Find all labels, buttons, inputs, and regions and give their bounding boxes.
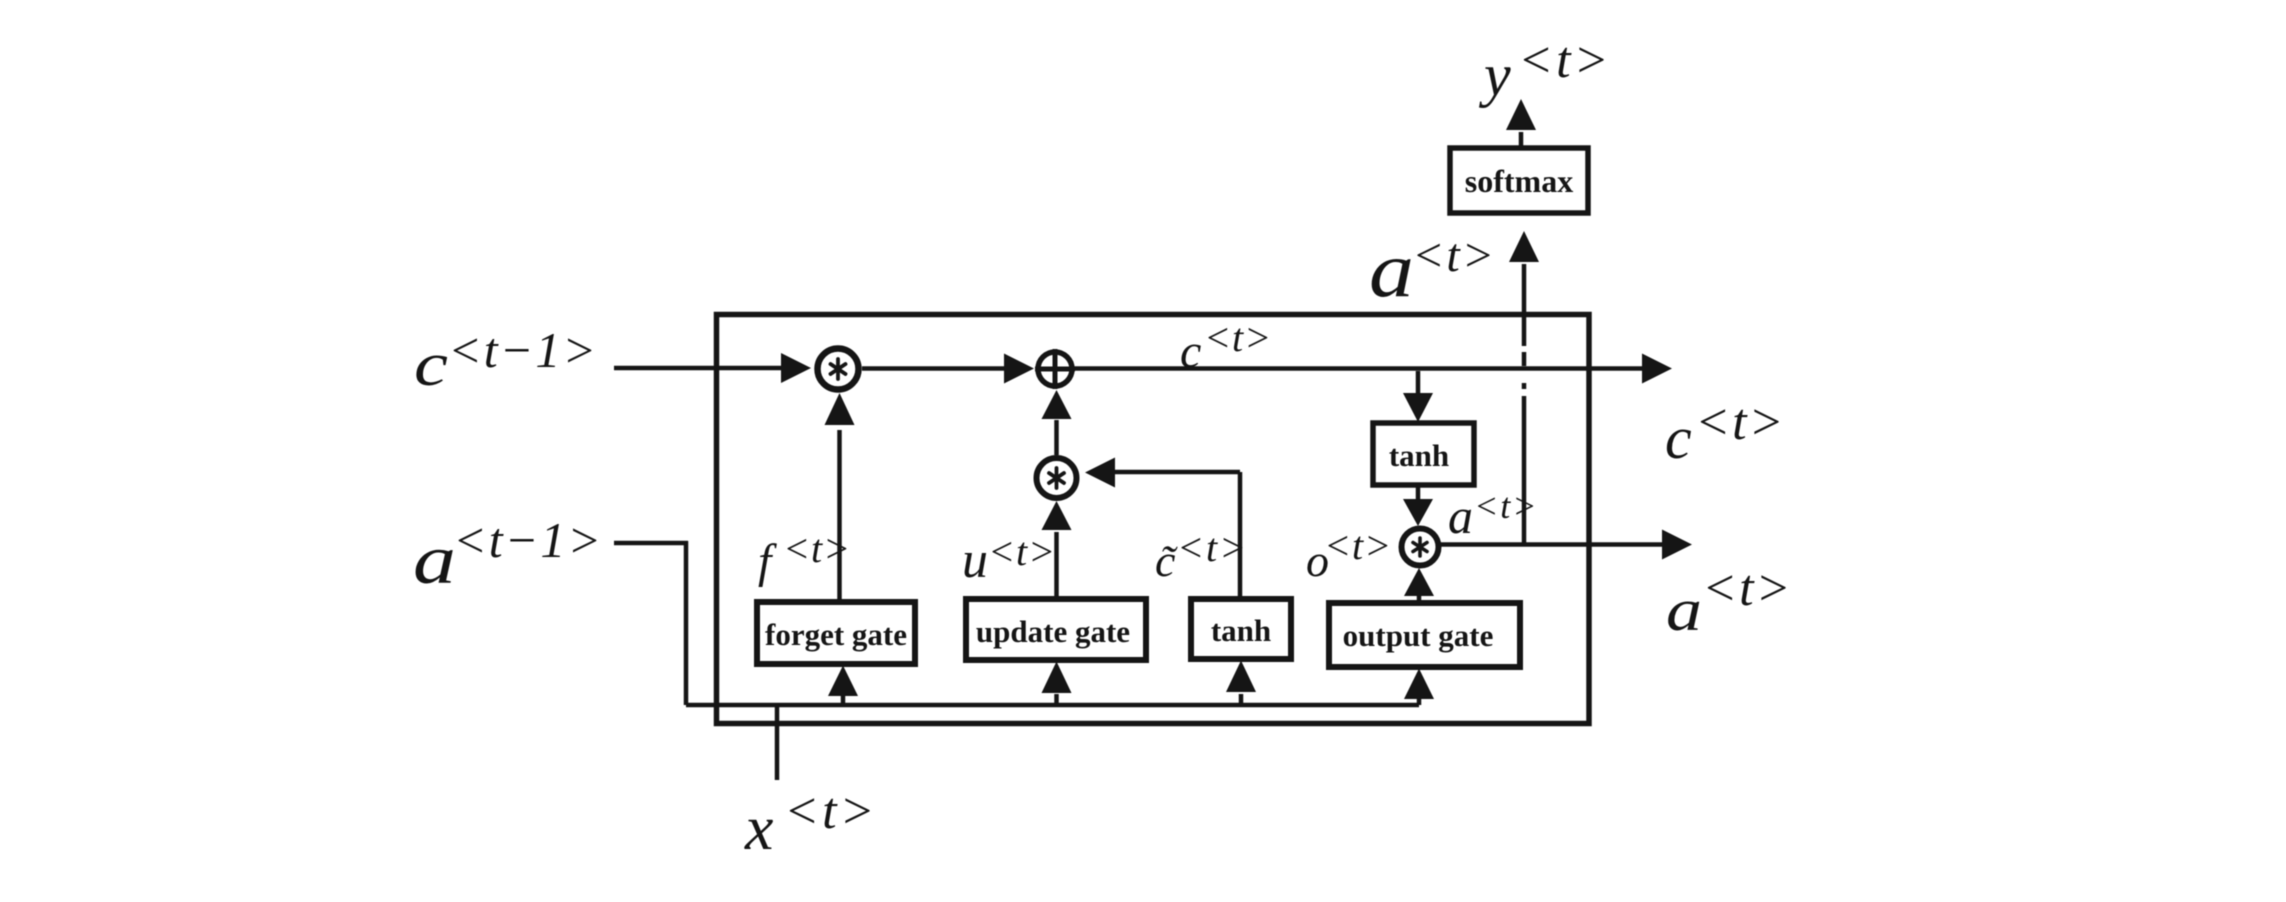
svg-text:c: c — [1665, 405, 1692, 471]
bus riser into candidate tanh — [1239, 694, 1244, 705]
forget gate box — [757, 602, 915, 664]
arrowhead into output tanh box — [1403, 393, 1433, 422]
input label c^&lt;t-1&gt; — [414, 322, 598, 399]
update multiply node circle — [1037, 458, 1077, 498]
svg-text:<t>: <t> — [1412, 229, 1496, 282]
svg-text:<t>: <t> — [1177, 525, 1248, 570]
wire output gate to output multiply node — [1417, 595, 1422, 602]
svg-text:<t>: <t> — [1518, 32, 1612, 89]
arrowhead c^&lt;t&gt; output right — [1642, 354, 1672, 384]
svg-text:<t>: <t> — [784, 783, 878, 840]
svg-text:softmax: softmax — [1465, 163, 1573, 199]
svg-text:update gate: update gate — [976, 614, 1130, 649]
svg-text:<t>: <t> — [1474, 486, 1539, 526]
bus riser into output gate — [1417, 699, 1422, 705]
label y^&lt;t&gt; — [1478, 32, 1612, 108]
svg-text:<t>: <t> — [988, 529, 1056, 574]
asterisk in output multiply node — [1413, 538, 1427, 556]
arrowhead bus into forget gate — [828, 666, 858, 697]
add node circle — [1038, 352, 1072, 386]
wire a out of output multiply node — [1441, 542, 1664, 547]
arrowhead u into update multiply node — [1042, 501, 1072, 530]
output multiply node circle — [1402, 529, 1439, 566]
svg-text:a: a — [1448, 488, 1473, 544]
svg-text:a: a — [1666, 577, 1702, 643]
arrowhead into add node from below — [1042, 390, 1072, 419]
output label a^&lt;t&gt; right — [1666, 560, 1793, 643]
arrowhead f into multiply node — [825, 393, 855, 425]
arrowhead into y^&lt;t&gt; — [1506, 99, 1536, 130]
outer LSTM cell box — [717, 315, 1590, 724]
svg-text:forget gate: forget gate — [765, 617, 907, 652]
asterisk in update multiply node — [1049, 468, 1064, 488]
label a^&lt;t&gt; top — [1369, 226, 1496, 313]
wire label c^&lt;t&gt; — [1180, 315, 1272, 378]
arrowhead a into softmax — [1509, 231, 1539, 262]
svg-text:c: c — [1180, 325, 1201, 378]
arrowhead bus into update gate — [1042, 662, 1072, 694]
vertical a wire upper solid part — [1522, 264, 1527, 346]
dash of dash-dot a wire — [1522, 352, 1527, 366]
output gate box — [1329, 603, 1520, 667]
svg-text:a: a — [413, 522, 456, 599]
arrowhead into add node — [1004, 354, 1034, 384]
wire output tanh to output multiply node — [1416, 485, 1421, 500]
arrowhead bus into candidate tanh — [1226, 661, 1256, 693]
plus cross in add node — [1035, 349, 1075, 389]
wire multiply to add node — [862, 366, 1006, 371]
svg-text:<t−1>: <t−1> — [448, 322, 598, 378]
input label a^&lt;t-1&gt; — [413, 512, 603, 599]
label x^&lt;t&gt; — [744, 783, 878, 863]
vertical a wire to softmax solid lower part — [1522, 396, 1527, 545]
label f^&lt;t&gt; — [758, 526, 851, 588]
label o^&lt;t&gt; — [1306, 523, 1392, 586]
arrowhead candidate into update multiply node — [1085, 458, 1115, 488]
output tanh box — [1373, 423, 1474, 485]
svg-text:<t>: <t> — [1702, 560, 1793, 617]
wire candidate vertical — [1238, 472, 1243, 599]
wire c down into output tanh — [1416, 371, 1421, 395]
svg-text:c̃: c̃ — [1155, 535, 1179, 586]
label u^&lt;t&gt; — [962, 529, 1056, 589]
multiply node circle (forget) — [818, 349, 859, 390]
label c-tilde^&lt;t&gt; — [1155, 525, 1248, 586]
svg-text:x: x — [744, 792, 773, 863]
arrowhead a^&lt;t&gt; output right — [1662, 530, 1692, 560]
svg-text:tanh: tanh — [1389, 438, 1449, 473]
arrowhead tanh into output multiply node — [1403, 499, 1433, 526]
svg-text:<t>: <t> — [1204, 315, 1272, 360]
update gate box — [966, 599, 1146, 660]
svg-text:<t>: <t> — [1695, 394, 1786, 451]
svg-text:output gate: output gate — [1343, 618, 1494, 653]
svg-text:u: u — [962, 532, 988, 589]
svg-text:c: c — [414, 331, 448, 399]
svg-text:<t−1>: <t−1> — [453, 512, 603, 568]
small label a^&lt;t&gt; by output multiply node — [1448, 486, 1539, 544]
svg-text:<t>: <t> — [1324, 523, 1392, 568]
update gate vertical wire u — [1054, 532, 1059, 601]
arrowhead c into forget multiply node — [781, 353, 811, 383]
wire c out of add node toward right — [1073, 366, 1645, 371]
arrowhead bus into output gate — [1404, 669, 1434, 700]
dot of dash-dot a wire — [1522, 383, 1527, 389]
bottom bus wire — [686, 703, 1419, 708]
wire c input — [614, 366, 783, 371]
forget gate vertical wire f — [837, 430, 842, 601]
svg-text:<t>: <t> — [783, 526, 851, 571]
softmax box — [1450, 148, 1588, 213]
wire a input vertical down — [684, 541, 689, 705]
wire candidate horizontal — [1113, 470, 1240, 475]
wire update multiply to add node — [1054, 420, 1059, 455]
bus riser into update gate — [1054, 694, 1059, 705]
candidate tanh box — [1191, 599, 1291, 659]
wire a input horizontal — [614, 541, 688, 546]
svg-text:tanh: tanh — [1211, 613, 1271, 648]
x input stem — [775, 705, 780, 780]
bus riser into forget gate — [841, 696, 846, 705]
svg-text:a: a — [1369, 226, 1414, 313]
asterisk in forget multiply node — [831, 359, 846, 379]
wire softmax to y output — [1519, 132, 1524, 147]
arrowhead o into output multiply node — [1404, 568, 1434, 596]
output label c^&lt;t&gt; right — [1665, 394, 1786, 471]
